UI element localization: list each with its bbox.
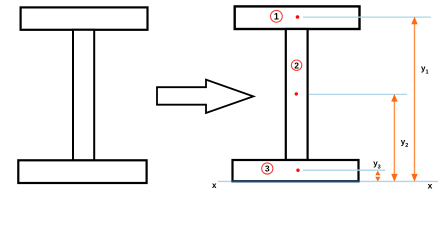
right I-beam web (area 2) xyxy=(286,29,308,160)
right I-beam top flange (area 1) xyxy=(235,6,360,29)
block arrow xyxy=(157,80,253,113)
centroid dot 3 xyxy=(296,169,299,172)
area marker circle 2 xyxy=(291,60,301,70)
area marker circle 3 xyxy=(262,163,273,174)
centroid line area 3 xyxy=(303,169,385,171)
svg-text:1: 1 xyxy=(274,12,279,22)
dimension y3 double arrow xyxy=(375,171,380,182)
dimension y2 arrowhead down xyxy=(391,174,397,182)
right I-beam bottom flange (area 3) xyxy=(233,160,359,181)
svg-text:3: 3 xyxy=(265,164,270,174)
x-axis segment under bottom flange xyxy=(231,181,359,183)
svg-text:x: x xyxy=(212,181,217,190)
dimension line y1 xyxy=(414,19,416,180)
dimension y2 arrowhead up xyxy=(391,94,397,102)
dimension line y2 xyxy=(393,96,395,180)
area marker circle 1 xyxy=(271,10,283,22)
dimension y1 arrowhead down xyxy=(411,174,417,182)
svg-text:x: x xyxy=(428,180,433,190)
centroid dot 1 xyxy=(296,15,300,19)
svg-text:2: 2 xyxy=(294,60,299,70)
centroid line area 2 xyxy=(309,93,407,95)
left I-beam web xyxy=(73,30,94,161)
centroid dot 2 xyxy=(295,92,298,95)
left I-beam top flange xyxy=(21,7,148,29)
dimension y1 arrowhead up xyxy=(411,17,417,25)
left I-beam bottom flange xyxy=(18,160,146,183)
centroid line area 1 xyxy=(303,16,431,18)
x-axis xyxy=(218,180,438,182)
